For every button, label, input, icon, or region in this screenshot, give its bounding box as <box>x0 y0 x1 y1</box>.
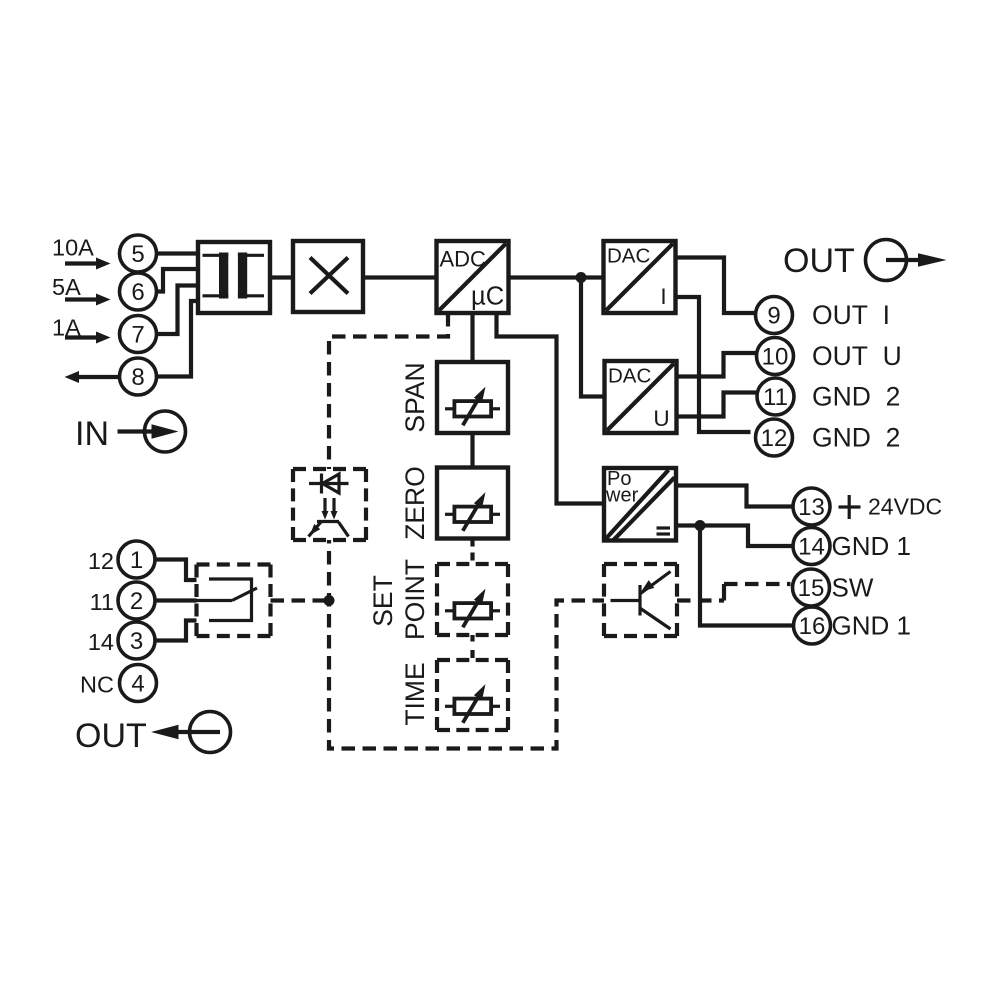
label OUT U <box>812 341 902 371</box>
wire terminal 8 to transformer <box>157 301 199 377</box>
terminal 12 <box>756 419 793 456</box>
terminal 11 <box>757 378 794 415</box>
svg-text:POINT: POINT <box>400 559 430 640</box>
switch transistor Q1 <box>611 572 671 630</box>
terminal 15 <box>793 569 830 606</box>
terminal 7 <box>120 316 157 353</box>
svg-text:OUT I: OUT I <box>812 300 890 330</box>
current transformer T1 box <box>198 242 270 313</box>
label GND 2 (terminal 11) <box>812 382 900 412</box>
relay changeover contact K1 <box>197 579 258 621</box>
wire terminal 5 to transformer <box>157 251 199 255</box>
svg-text:24VDC: 24VDC <box>868 494 942 520</box>
input symbol IN <box>75 411 186 453</box>
DAC I block <box>604 241 676 313</box>
wire junction to terminal 16 <box>700 526 794 626</box>
svg-text:SET: SET <box>368 575 398 627</box>
wire ADC to DAC I <box>509 275 604 279</box>
dashed SET net from ADC to switch transistor <box>329 313 604 749</box>
wire uC to SPAN <box>470 313 474 362</box>
label SET <box>368 575 398 627</box>
wire junction to DAC U <box>581 278 605 397</box>
label ZERO <box>400 466 430 540</box>
dashed wire ZERO to SET POINT <box>470 541 474 561</box>
optocoupler light arrows <box>322 498 338 520</box>
TIME trimmer symbol <box>445 684 500 723</box>
DAC U block <box>605 361 677 433</box>
svg-text:6: 6 <box>131 279 144 306</box>
wire transformer to multiplier <box>270 275 293 279</box>
label POINT <box>400 559 430 640</box>
svg-text:TIME: TIME <box>400 662 430 725</box>
terminal 9 <box>756 297 793 334</box>
svg-text:10A: 10A <box>52 235 94 261</box>
svg-text:13: 13 <box>798 494 825 521</box>
svg-text:12: 12 <box>761 425 788 452</box>
terminal 10 <box>757 338 794 375</box>
label 5A <box>52 274 81 300</box>
label 11 (terminal 2) <box>90 589 114 615</box>
svg-text:IN: IN <box>75 415 109 453</box>
svg-text:NC: NC <box>80 672 114 698</box>
terminal 13 <box>793 488 830 525</box>
svg-text:DAC: DAC <box>608 365 651 388</box>
wire DAC I to terminal 9 <box>676 258 756 314</box>
wire Power to terminal 14 <box>676 526 793 547</box>
svg-text:10: 10 <box>762 344 789 371</box>
svg-text:12: 12 <box>88 548 114 574</box>
terminal 1 <box>118 541 155 578</box>
input arrow 1A <box>65 332 111 344</box>
label SPAN <box>400 362 430 432</box>
node junction Power GND <box>695 520 706 531</box>
optocoupler phototransistor <box>309 522 349 537</box>
dashed wire SET POINT to TIME <box>470 635 474 658</box>
terminal 2 <box>118 582 155 619</box>
label 10A <box>52 235 94 261</box>
svg-text:14: 14 <box>88 629 114 655</box>
optocoupler LED <box>309 474 349 494</box>
output symbol OUT top <box>783 240 947 281</box>
svg-text:14: 14 <box>798 534 825 561</box>
SPAN potentiometer box <box>437 362 508 433</box>
label 1A <box>52 315 81 341</box>
output symbol OUT bottom <box>75 712 231 756</box>
wire DAC U to terminal 10 <box>677 353 757 377</box>
label TIME <box>400 662 430 725</box>
terminal 6 <box>120 273 157 310</box>
svg-text:GND 2: GND 2 <box>812 423 900 453</box>
switch transistor box (dashed) <box>604 564 677 636</box>
svg-text:OUT: OUT <box>783 242 855 280</box>
node junction ADC output <box>576 272 587 283</box>
svg-text:OUT U: OUT U <box>812 341 902 371</box>
svg-text:9: 9 <box>767 303 780 330</box>
label SW <box>832 573 874 603</box>
multiplier block <box>293 241 363 312</box>
label NC (terminal 4) <box>80 672 114 698</box>
label OUT I <box>812 300 890 330</box>
svg-text:11: 11 <box>90 589 114 615</box>
wire Power to terminal 13 <box>676 486 793 507</box>
relay contact box (dashed) <box>197 565 271 637</box>
terminal 14 <box>793 528 830 565</box>
wire terminal 3 to relay <box>155 621 197 641</box>
TIME potentiometer box (dashed) <box>437 660 508 730</box>
terminal 3 <box>118 622 155 659</box>
wire DAC I to terminal 12 <box>676 297 751 432</box>
svg-text:µC: µC <box>471 283 504 311</box>
node junction SET line <box>324 595 335 606</box>
svg-text:4: 4 <box>131 671 144 698</box>
SPAN trimmer symbol <box>445 387 500 426</box>
label GND 2 (terminal 12) <box>812 423 900 453</box>
terminal 8 <box>120 358 157 395</box>
svg-text:ZERO: ZERO <box>400 466 430 540</box>
ADC / microcontroller block U1 <box>437 241 509 313</box>
SET POINT potentiometer box (dashed) <box>437 564 508 635</box>
wire terminal 1 to relay <box>155 560 197 581</box>
svg-text:7: 7 <box>131 322 144 349</box>
svg-text:15: 15 <box>798 575 825 602</box>
terminal 4 <box>120 665 157 702</box>
wire terminal 7 to transformer <box>157 286 199 335</box>
wire terminal 2 to relay <box>155 598 197 602</box>
svg-text:DAC: DAC <box>607 245 650 268</box>
svg-text:GND 2: GND 2 <box>812 382 900 412</box>
Power supply block <box>604 468 676 541</box>
wire multiplier to ADC <box>363 275 437 279</box>
label 14 (terminal 3) <box>88 629 114 655</box>
svg-text:OUT: OUT <box>75 717 147 755</box>
svg-text:3: 3 <box>130 628 143 655</box>
svg-text:I: I <box>660 284 666 309</box>
wire uC to Power supply <box>497 313 605 504</box>
svg-text:wer: wer <box>605 485 639 507</box>
optocoupler box (dashed) <box>293 469 366 540</box>
svg-text:1: 1 <box>130 547 143 574</box>
terminal 16 <box>794 607 831 644</box>
label GND 1 (terminal 14) <box>832 531 911 561</box>
label GND 1 (terminal 16) <box>832 611 911 641</box>
ZERO potentiometer box <box>437 468 508 539</box>
ZERO trimmer symbol <box>445 492 500 531</box>
wire DAC U to terminal 11 <box>677 393 758 417</box>
dashed wire transistor to SW terminal 15 <box>677 584 791 601</box>
return arrow terminal 8 <box>65 371 119 383</box>
svg-text:SPAN: SPAN <box>400 362 430 432</box>
svg-text:GND 1: GND 1 <box>832 531 911 561</box>
svg-text:U: U <box>653 406 669 431</box>
svg-text:5: 5 <box>131 241 144 268</box>
wire terminal 6 to transformer <box>157 269 199 292</box>
svg-text:11: 11 <box>763 384 788 411</box>
svg-text:GND 1: GND 1 <box>832 611 911 641</box>
input arrow 10A <box>65 258 111 270</box>
dashed wire relay to SET junction <box>271 598 330 602</box>
svg-text:5A: 5A <box>52 274 81 300</box>
label + 24VDC <box>839 494 943 520</box>
svg-text:ADC: ADC <box>440 247 487 272</box>
svg-text:16: 16 <box>799 613 826 640</box>
svg-text:8: 8 <box>131 364 144 391</box>
SET POINT trimmer symbol <box>445 589 500 628</box>
svg-text:2: 2 <box>130 588 143 615</box>
current transformer T1 winding symbol <box>203 253 265 299</box>
svg-text:SW: SW <box>832 573 874 603</box>
input arrow 5A <box>65 294 111 306</box>
label 12 (terminal 1) <box>88 548 114 574</box>
terminal 5 <box>120 235 157 272</box>
wire SPAN to ZERO <box>470 433 474 468</box>
